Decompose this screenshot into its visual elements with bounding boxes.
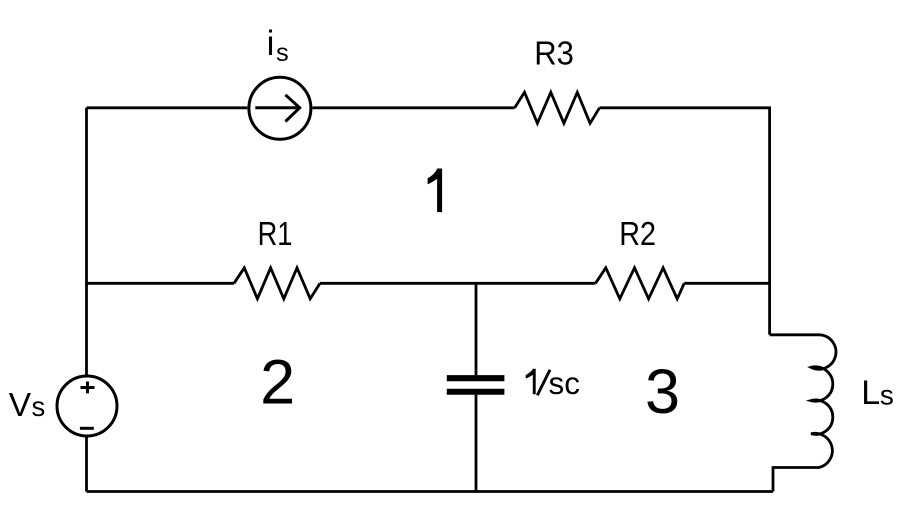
mesh label 1	[428, 169, 443, 213]
svg-text:s: s	[880, 380, 894, 411]
svg-text:sc: sc	[549, 365, 581, 401]
svg-text:s: s	[32, 391, 46, 422]
wire left vertical top segment	[85, 108, 88, 375]
svg-text:2: 2	[260, 347, 295, 417]
wire middle horizontal right	[684, 282, 769, 285]
svg-text:R1: R1	[258, 216, 293, 253]
resistor R2	[596, 268, 685, 299]
wire capacitor stem top	[475, 283, 478, 375]
wire bottom horizontal	[87, 490, 774, 493]
svg-text:R3: R3	[534, 35, 574, 72]
resistor R1	[234, 268, 320, 299]
wire middle horizontal center	[320, 282, 596, 285]
svg-text:3: 3	[645, 357, 680, 427]
label 1/sc: slash	[537, 370, 550, 396]
wire top horizontal from current source to R3	[313, 106, 515, 109]
resistor R3	[515, 92, 600, 123]
svg-text:V: V	[9, 387, 32, 424]
inductor Ls	[770, 335, 836, 492]
wire top-right horizontal and right vertical	[600, 108, 770, 335]
svg-text:i: i	[267, 24, 275, 63]
wire left vertical bottom segment	[85, 437, 88, 492]
current source is	[249, 77, 311, 139]
svg-text:R2: R2	[619, 216, 656, 253]
wire top-left horizontal	[87, 106, 248, 109]
label 1/sc: digit 1	[526, 369, 536, 395]
svg-text:L: L	[861, 374, 880, 412]
voltage source Vs	[57, 376, 117, 436]
wire capacitor stem bottom	[475, 395, 478, 492]
wire middle horizontal left	[87, 282, 235, 285]
capacitor 1/sc	[447, 378, 505, 392]
svg-text:s: s	[276, 39, 289, 67]
